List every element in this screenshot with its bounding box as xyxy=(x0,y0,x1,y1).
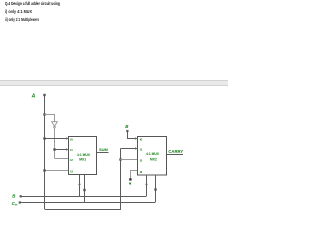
arrowhead I1 xyxy=(66,148,69,151)
svg-text:I3: I3 xyxy=(140,170,143,174)
svg-text:Cin: Cin xyxy=(12,201,18,207)
svg-text:4:1 MUX: 4:1 MUX xyxy=(77,153,91,157)
arrow tick S1 xyxy=(78,182,81,185)
node A top dot xyxy=(43,94,45,96)
wire M1 select S1 to B xyxy=(79,175,81,197)
wire I2 of M1 from inverter bottom xyxy=(55,158,69,160)
arrowhead M2 I1 xyxy=(135,147,138,150)
endpoint dot constant xyxy=(129,178,131,180)
wire I0 of M1 from A xyxy=(45,138,69,140)
wire M2 select S0 to Cin xyxy=(155,175,157,202)
wire I3 of M1 from A xyxy=(45,170,69,172)
dot on M2 S0 xyxy=(154,188,156,190)
node dot B input M2 xyxy=(126,130,128,132)
arrow tick M2 S1 xyxy=(145,182,148,185)
junction dot I3 xyxy=(43,169,45,171)
wire M2 I2 stub xyxy=(121,159,138,161)
svg-text:I0: I0 xyxy=(140,138,143,142)
wire M2 I3 constant stub xyxy=(131,171,138,180)
question text line 3 xyxy=(5,17,39,22)
wire A branch to inverter xyxy=(45,115,55,122)
wire B horizontal xyxy=(21,196,147,198)
label constant (green mark) xyxy=(129,183,131,186)
wire I1 of M1 from inverter xyxy=(55,149,69,151)
wire A bottom elbow to M2 xyxy=(45,149,121,210)
arrowhead I0 xyxy=(66,137,69,140)
svg-text:I1: I1 xyxy=(70,148,73,152)
arrowhead M2 I0 xyxy=(135,137,138,140)
wire Cin horizontal xyxy=(20,202,156,204)
svg-text:CARRY: CARRY xyxy=(168,149,183,154)
inverter NOT gate xyxy=(52,122,58,127)
wire B input elbow to M2 I0 xyxy=(128,131,138,139)
wire inverter output vertical xyxy=(54,128,56,159)
svg-text:SUM: SUM xyxy=(99,147,109,152)
svg-text:4:1 MUX: 4:1 MUX xyxy=(146,152,160,156)
divider band xyxy=(0,80,228,86)
node Cin dot xyxy=(19,201,21,203)
junction dot A to inverter branch xyxy=(43,113,45,115)
wire A vertical main xyxy=(44,95,46,209)
svg-text:I2: I2 xyxy=(70,158,73,162)
wire M2 I1 stub xyxy=(121,148,138,150)
mux M2 box xyxy=(138,137,167,176)
svg-text:B: B xyxy=(125,124,129,129)
svg-text:I1: I1 xyxy=(140,148,143,152)
svg-text:MX1: MX1 xyxy=(79,158,86,162)
svg-text:B: B xyxy=(12,194,16,199)
wire M2 select S1 to B xyxy=(146,175,148,196)
dot on S0 xyxy=(83,189,85,191)
svg-text:I0: I0 xyxy=(70,138,73,142)
svg-text:A: A xyxy=(31,93,36,99)
wire CARRY output xyxy=(167,154,184,156)
svg-text:I2: I2 xyxy=(140,159,143,163)
junction dot I1 xyxy=(53,148,55,150)
node B dot xyxy=(20,195,22,197)
wire M1 select S0 to Cin xyxy=(84,175,86,203)
question text line 1 xyxy=(5,1,60,6)
junction dot M2 I2 xyxy=(119,158,121,160)
junction dot I0 xyxy=(43,137,45,139)
mux M1 box xyxy=(69,137,97,175)
question text line 2 xyxy=(5,9,32,14)
svg-text:I3: I3 xyxy=(70,170,73,174)
wire SUM output xyxy=(97,152,109,154)
svg-text:MX2: MX2 xyxy=(150,157,157,161)
